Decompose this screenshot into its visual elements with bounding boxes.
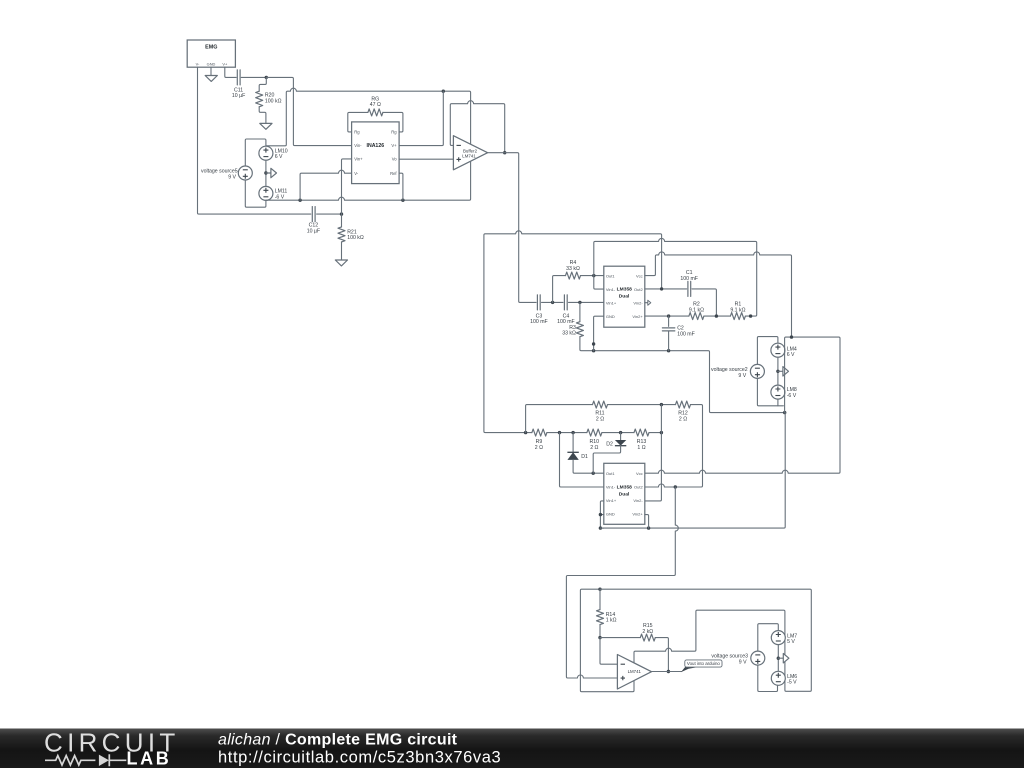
svg-text:Rg: Rg — [391, 130, 397, 135]
node R15/output — [667, 670, 670, 673]
resistor R4 (33 kΩ) — [566, 272, 581, 279]
wire H2 supply link and right-side drop to Vcc rail (stage3) — [645, 337, 840, 473]
diode D2 — [620, 433, 622, 440]
node Vin2+/C2/R2 — [667, 314, 670, 317]
wire Vin1+/GND riser (stage3) — [600, 501, 603, 528]
svg-text:V-: V- — [354, 171, 359, 176]
svg-text:V+: V+ — [391, 143, 397, 148]
wire EMG V- to C12 rail — [198, 67, 311, 214]
svg-text:Vin1-: Vin1- — [606, 484, 616, 489]
svg-text:LM358: LM358 — [617, 484, 633, 490]
wire R11 to R12 — [608, 404, 676, 406]
wire Vin1- riser (stage3) — [560, 433, 604, 487]
wire voltage source2 bottom loop — [757, 378, 783, 405]
resistor R12 (2 Ω) — [676, 401, 691, 408]
resistor R3 (33 kΩ) — [579, 302, 581, 321]
svg-text:-6 V: -6 V — [787, 393, 797, 399]
node Vin2+ riser (stage3) — [647, 526, 650, 529]
wire voltage source3 bottom loop — [758, 665, 778, 691]
svg-text:Vin+: Vin+ — [354, 157, 363, 162]
svg-text:Out1: Out1 — [606, 471, 615, 476]
svg-text:2 Ω: 2 Ω — [679, 417, 687, 423]
node rail/H2 junction — [783, 411, 786, 414]
svg-text:D1: D1 — [581, 454, 588, 460]
wire Out2 drop to stage4 + input — [566, 487, 678, 678]
resistor R20 — [256, 91, 263, 107]
wire INA126 V+ pin up — [399, 91, 443, 145]
svg-text:9 V: 9 V — [738, 373, 746, 379]
svg-text:10 µF: 10 µF — [307, 228, 320, 234]
svg-text:Ref: Ref — [390, 171, 397, 176]
node rail left (stage3) — [599, 526, 602, 529]
node Vin1- riser (stage3) — [558, 431, 561, 434]
CircuitLab logo resistor-diode glyph — [45, 756, 95, 765]
node R14/R15/minus riser — [598, 636, 601, 639]
ground (EMG) — [205, 76, 217, 82]
svg-text:D2: D2 — [606, 441, 613, 447]
wire EMG V+ to C11 — [225, 67, 236, 77]
wire LM8 bottom riser — [777, 399, 779, 406]
source LM11 (-6 V) — [259, 186, 273, 200]
resistor R11 (2 Ω) — [593, 401, 608, 408]
source LM7 (5 V) — [771, 631, 785, 645]
node R3 top — [578, 301, 581, 304]
svg-text:2 Ω: 2 Ω — [596, 417, 604, 423]
wire R9 to R10 — [547, 432, 587, 434]
node C2 bottom on rail — [667, 349, 670, 352]
svg-text:100 mF: 100 mF — [677, 332, 695, 338]
svg-text:INA126: INA126 — [367, 143, 385, 149]
svg-text:Vin1+: Vin1+ — [606, 300, 617, 305]
op-amp chip LM358 Dual (stage3) — [604, 463, 645, 524]
svg-text:6 V: 6 V — [787, 352, 795, 358]
resistor R10 (2 Ω) — [587, 429, 602, 436]
wire Buffer2 feedback loop — [450, 101, 504, 153]
svg-text:GND: GND — [207, 61, 216, 66]
svg-text:47 Ω: 47 Ω — [370, 102, 381, 108]
svg-text:Vin1+: Vin1+ — [606, 498, 617, 503]
wire Vin2+ riser (stage3) — [645, 515, 649, 529]
wire voltage source2 top loop — [757, 337, 778, 365]
node A (C11/R20) — [265, 76, 268, 79]
svg-text:Out2: Out2 — [634, 484, 643, 489]
svg-text:Vin2+: Vin2+ — [632, 314, 643, 319]
svg-text:9 V: 9 V — [228, 174, 236, 180]
svg-text:LM741: LM741 — [628, 669, 642, 674]
node D2 top — [619, 431, 622, 434]
node flag (stage4 common) — [778, 657, 783, 659]
node C12/R21/Vin+ — [340, 212, 343, 215]
resistor R21 — [341, 214, 343, 227]
ground (R20) — [260, 123, 272, 129]
callout box: Vout into arduino — [685, 660, 722, 667]
wire minus input riser — [600, 638, 617, 665]
wire Out2 to box (stage3) — [645, 484, 677, 487]
svg-text:Rg: Rg — [354, 130, 360, 135]
wire Vcc riser (stage2) — [645, 252, 792, 337]
node R11/R12/vertical — [660, 403, 663, 406]
node LM10/LM11 midpoint — [264, 171, 267, 174]
node R2/R1/C1 — [715, 314, 718, 317]
source LM4 (6 V) — [771, 343, 785, 357]
svg-text:LM741: LM741 — [462, 153, 476, 158]
source LM6 (-5 V) — [771, 671, 785, 685]
svg-text:Vout into arduino: Vout into arduino — [687, 661, 721, 666]
capacitor C11 — [236, 70, 238, 85]
wire R4 to Out1 — [581, 275, 604, 277]
resistor R1 (9.1 kΩ) — [730, 313, 745, 320]
svg-text:2 kΩ: 2 kΩ — [642, 629, 653, 635]
svg-text:1 kΩ: 1 kΩ — [606, 618, 617, 624]
node flag (stage1 common) — [266, 172, 271, 174]
svg-text:2 Ω: 2 Ω — [590, 445, 598, 451]
wire node A to resistor R20 — [259, 77, 266, 91]
svg-text:10 µF: 10 µF — [232, 93, 245, 99]
node flag (stage2 common) — [778, 370, 783, 372]
node D2 path on Out1 row — [592, 472, 595, 475]
voltage source3 (9 V) — [751, 651, 765, 665]
svg-text:GND: GND — [606, 512, 615, 517]
wire LM10 to LM11 midpoint — [265, 160, 267, 186]
wire LM358 GND riser — [594, 316, 604, 351]
resistor R9 (2 Ω) — [532, 429, 547, 436]
ground (R21) — [335, 260, 347, 266]
svg-text:9 V: 9 V — [739, 659, 747, 665]
resistor R2 (9.1 kΩ) — [689, 313, 704, 320]
node R13/vertical — [660, 431, 663, 434]
wire vertical R11-R12 node to Vin2- (stage3) — [645, 405, 662, 501]
wire EMG GND pin — [210, 67, 212, 75]
wire R9 input row (from stage2 output) — [526, 432, 532, 434]
svg-text:http://circuitlab.com/c5z3bn3x: http://circuitlab.com/c5z3bn3x76va3 — [218, 749, 501, 767]
svg-text:Dual: Dual — [619, 293, 630, 299]
wire stage4 top rail right loop to V+ path — [600, 589, 811, 691]
wire R10 to R13 — [602, 432, 634, 434]
wire LM10 top to voltage source5 — [245, 139, 266, 166]
node R1 right — [749, 314, 752, 317]
svg-text:Vo: Vo — [392, 157, 398, 162]
svg-text:LM358: LM358 — [617, 286, 633, 292]
svg-text:Vin2+: Vin2+ — [632, 512, 643, 517]
wire Out1 node to R1 right (feedback rail) — [594, 238, 757, 316]
wire LM4/LM8 midpoint — [777, 357, 779, 385]
EMG block — [187, 40, 235, 67]
svg-text:6 V: 6 V — [275, 154, 283, 160]
svg-text:100 mF: 100 mF — [680, 276, 698, 282]
wire D1 to Out1 row — [573, 460, 604, 473]
node GND riser mid — [592, 342, 595, 345]
wire C1 right to R2/R1 node — [692, 289, 716, 316]
svg-text:100 kΩ: 100 kΩ — [347, 235, 364, 241]
svg-text:2 Ω: 2 Ω — [535, 445, 543, 451]
wire R3 to virtual-ground rail — [580, 337, 593, 351]
wire C4 to LM358 Vin1+ — [569, 301, 604, 303]
node R11 left / R9 wire — [524, 431, 527, 434]
node Ref on -6V rail — [401, 199, 404, 202]
capacitor C1 — [687, 281, 689, 296]
wire INA126 Vin+ to C12 node — [342, 159, 352, 214]
op-amp chip LM358 Dual (stage2) — [604, 266, 645, 327]
voltage source5 (9 V) — [238, 166, 252, 180]
wire D2 to Out1 row — [593, 446, 620, 474]
wire C3 to C4 — [542, 301, 564, 303]
node Buffer2 output — [503, 151, 506, 154]
wire INA126 Vo to Buffer2 + — [399, 158, 453, 160]
wire Rg gain loop left — [348, 112, 368, 131]
capacitor C12 — [311, 207, 313, 222]
source LM10 (6 V) — [259, 146, 273, 160]
svg-text:GND: GND — [606, 314, 615, 319]
wire LM10 top net (+6V) to Buffer2 V+ — [266, 88, 471, 146]
svg-text:33 kΩ: 33 kΩ — [562, 331, 576, 337]
node GND riser (stage3) — [599, 513, 602, 516]
svg-text:100 kΩ: 100 kΩ — [265, 98, 282, 104]
wire Out2 row with C1 — [645, 288, 687, 290]
wire stage2 top (Out2 net) — [484, 231, 662, 433]
svg-text:EMG: EMG — [205, 44, 217, 50]
wire LM7/LM6 midpoint — [777, 645, 779, 672]
node flag Vin2- (stage2) — [645, 302, 648, 304]
source LM8 (-6 V) — [771, 385, 785, 399]
wire R20 to ground — [259, 107, 266, 123]
node D1 top — [571, 431, 574, 434]
wire LM741 output — [652, 671, 682, 673]
node H2/Vcc riser — [790, 335, 793, 338]
svg-text:Vcc: Vcc — [636, 471, 643, 476]
wire node A to INA126 Vin- — [266, 77, 351, 145]
capacitor C3 — [536, 295, 538, 310]
node Out2/top wire — [660, 287, 663, 290]
node LM4/LM8 midpoint — [776, 370, 779, 373]
wire R21 to ground — [341, 242, 343, 260]
wire -6V rail to Buffer2 V- — [266, 162, 471, 201]
wire INA126 Ref to rail — [399, 173, 403, 200]
svg-text:1 Ω: 1 Ω — [637, 445, 645, 451]
wire C11 to node A — [241, 76, 266, 78]
wire stage4 top rail — [580, 589, 634, 692]
svg-text:Vin-: Vin- — [354, 143, 362, 148]
node V- on -6V rail — [298, 199, 301, 202]
wire virtual-ground rail (stage2) — [592, 351, 783, 413]
wire C12 to node — [317, 213, 342, 215]
wire node to Vin1- — [594, 276, 604, 290]
resistor R13 (1 Ω) — [634, 429, 649, 436]
svg-text:Vin1-: Vin1- — [606, 287, 616, 292]
wire virtual-ground rail (stage3) — [600, 413, 785, 528]
op-amp chip INA126 — [352, 122, 400, 184]
svg-text:Out1: Out1 — [606, 273, 615, 278]
wire voltage source3 top loop — [758, 624, 779, 651]
wire R12 to Out2 (stage3) — [677, 405, 703, 487]
svg-text:Dual: Dual — [619, 492, 630, 498]
wire Vin2+ row / R2 / R1 — [645, 315, 689, 317]
node LM10/INA126 V+ junction — [442, 90, 445, 93]
svg-text:LAB: LAB — [127, 749, 172, 769]
node Out2/drop (stage3) — [674, 485, 677, 488]
svg-text:-6 V: -6 V — [275, 194, 285, 200]
svg-text:V+: V+ — [222, 61, 228, 66]
resistor RG (47 Ω) — [368, 109, 383, 116]
op-amp LM741 (stage4) — [617, 655, 651, 690]
capacitor C4 — [563, 295, 565, 310]
diode D1 — [572, 433, 574, 453]
wire R13 to vertical — [649, 432, 661, 434]
svg-text:100 mF: 100 mF — [530, 319, 548, 325]
wire R15 to output — [655, 638, 668, 671]
op-amp Buffer2 LM741 — [453, 136, 487, 170]
node LM7/LM6 midpoint — [777, 657, 780, 660]
svg-text:Vin2-: Vin2- — [633, 300, 643, 305]
svg-text:alichan / Complete EMG circuit: alichan / Complete EMG circuit — [218, 732, 458, 749]
svg-text:5 V: 5 V — [787, 639, 795, 645]
resistor R15 (2 kΩ) — [600, 637, 640, 639]
wire voltage source5 bottom loop — [245, 180, 266, 207]
wire R11 riser — [526, 405, 593, 433]
wire Buffer2 output down to stage 2 — [488, 153, 536, 303]
callout wedge (Vout) — [681, 665, 701, 673]
node R14 top — [598, 588, 601, 591]
node Out1/Vin1-/R4 — [592, 274, 595, 277]
wire R4 left riser — [553, 276, 566, 303]
capacitor C2 — [668, 316, 670, 326]
svg-text:Vcc: Vcc — [636, 273, 643, 278]
svg-text:33 kΩ: 33 kΩ — [566, 266, 580, 272]
voltage source2 (9 V) — [750, 364, 764, 378]
wire R2 to R1 — [704, 315, 731, 317]
svg-text:C2: C2 — [677, 325, 684, 331]
svg-text:-5 V: -5 V — [787, 680, 797, 686]
node R4 left — [551, 301, 554, 304]
svg-text:9.1 kΩ: 9.1 kΩ — [730, 307, 745, 313]
resistor R14 (1 kΩ) — [599, 589, 601, 609]
wire INA126 V- pin to rail — [300, 170, 352, 200]
node GND1 on rail — [592, 349, 595, 352]
wire Rg gain loop right — [383, 112, 403, 131]
svg-text:Out2: Out2 — [634, 287, 643, 292]
svg-text:Vin2-: Vin2- — [633, 498, 643, 503]
svg-text:9.1 kΩ: 9.1 kΩ — [689, 307, 704, 313]
